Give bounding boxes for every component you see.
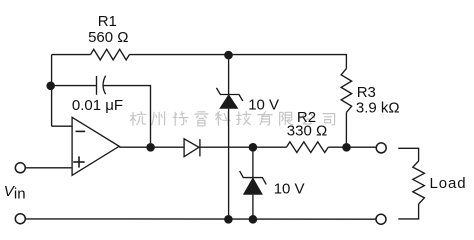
svg-text:Load: Load: [430, 175, 467, 192]
svg-text:R1: R1: [98, 13, 117, 30]
svg-text:0.01 μF: 0.01 μF: [72, 97, 123, 114]
svg-text:in: in: [14, 185, 26, 202]
svg-text:10 V: 10 V: [274, 180, 305, 197]
svg-text:560 Ω: 560 Ω: [88, 29, 128, 46]
svg-text:R3: R3: [357, 84, 376, 101]
svg-text:3.9 kΩ: 3.9 kΩ: [356, 99, 400, 116]
svg-text:330 Ω: 330 Ω: [287, 123, 327, 140]
svg-text:10 V: 10 V: [248, 97, 279, 114]
